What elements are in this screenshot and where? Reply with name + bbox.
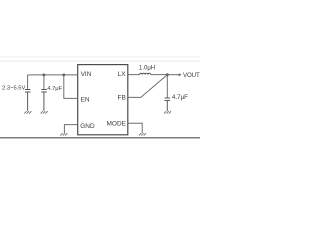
svg-text:FB: FB xyxy=(117,95,125,102)
svg-text:1.0μH: 1.0μH xyxy=(139,65,155,71)
svg-text:2.3~5.5V: 2.3~5.5V xyxy=(2,86,26,92)
wire output node to VOUT terminal xyxy=(167,74,178,76)
wire inductor to output node xyxy=(151,74,168,76)
ground (GND pin) xyxy=(60,133,67,135)
svg-text:VOUT: VOUT xyxy=(183,72,200,79)
svg-text:EN: EN xyxy=(81,97,90,104)
svg-text:LX: LX xyxy=(118,71,127,78)
svg-text:4.7μF: 4.7μF xyxy=(172,94,188,101)
wire VIN rail xyxy=(28,74,78,76)
wire GND pin to ground xyxy=(64,125,77,133)
svg-text:GND: GND xyxy=(80,123,95,130)
op-amp U1 IC body xyxy=(78,65,128,135)
wire MODE to ground xyxy=(128,123,142,133)
inductor L1 1.0uH xyxy=(140,73,151,74)
svg-text:4.7μF: 4.7μF xyxy=(47,86,62,92)
svg-text:VIN: VIN xyxy=(81,71,92,78)
capacitor C1 xyxy=(25,90,31,111)
wire LX to inductor xyxy=(128,74,140,76)
wire input corner down to C1 xyxy=(27,75,29,89)
node output junction dot xyxy=(166,73,169,76)
capacitor C3 4.7uF xyxy=(165,98,171,111)
node junction dot C2 xyxy=(43,74,46,77)
node VOUT terminal arrow xyxy=(179,73,182,76)
ground (C3) xyxy=(164,111,171,113)
wire output node down to C3 xyxy=(166,75,168,98)
node junction dot EN branch xyxy=(62,74,65,77)
wire FB stub and feedback diagonal xyxy=(128,75,168,98)
ground (C2) xyxy=(41,111,48,113)
wire C2 top lead xyxy=(43,75,45,89)
svg-text:MODE: MODE xyxy=(107,121,127,128)
ground (MODE) xyxy=(139,133,146,135)
capacitor C2 4.7uF xyxy=(41,90,47,111)
wire EN branch xyxy=(64,75,78,99)
ground (C1) xyxy=(24,111,31,113)
